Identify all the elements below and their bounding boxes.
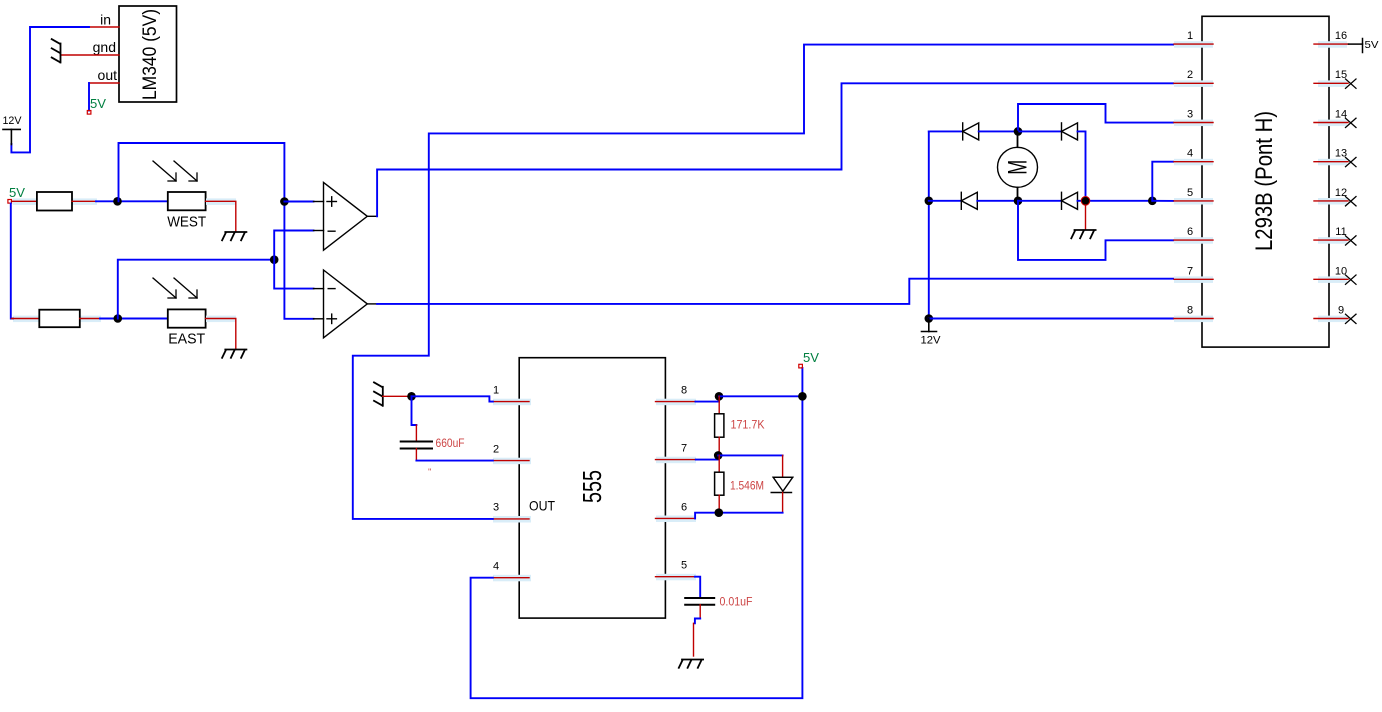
- wire motor bottom loop to L293B pin 6: [1018, 201, 1174, 260]
- supply 12V (left): [3, 129, 20, 144]
- wire motor top lead: [1017, 131, 1019, 147]
- svg-text:660uF: 660uF: [436, 438, 465, 450]
- 555 pin 7 stub: [656, 459, 696, 461]
- wire 555 pin 7 to junction: [696, 455, 718, 459]
- wire bottom node to D4: [1018, 200, 1062, 202]
- resistor R2 (EAST divider): [39, 310, 80, 328]
- L293B pin 14 stub (nc): [1314, 118, 1356, 127]
- wire pin7 junction to diode top: [718, 454, 782, 456]
- node pin8/R3 junction: [715, 392, 724, 401]
- svg-text:EAST: EAST: [168, 331, 205, 348]
- ground for bridge: [1071, 230, 1095, 238]
- svg-text:5V: 5V: [90, 97, 107, 111]
- wire 555 pin 6 to junction row: [695, 513, 783, 519]
- svg-text:5V: 5V: [803, 351, 820, 365]
- svg-text:12V: 12V: [921, 335, 942, 347]
- node 555 pin1/cap junction: [407, 392, 416, 401]
- wire ground node to pin5 node: [1086, 200, 1153, 202]
- node tap EAST signal: [270, 255, 279, 264]
- node junction EAST divider: [114, 314, 123, 323]
- svg-text:6: 6: [681, 502, 687, 514]
- wire rail to R2: [12, 318, 40, 320]
- pin highlight bands L293B left: [1174, 41, 1213, 322]
- wire D3 to bottom node: [977, 200, 1018, 202]
- wire WEST to ground: [206, 201, 236, 231]
- node pin6/R4 junction: [715, 508, 724, 517]
- ground at 555 pin 1: [374, 382, 383, 405]
- pin highlight band (EAST right): [206, 316, 236, 323]
- wire EAST to ground: [206, 319, 236, 349]
- wire R2 to junction: [80, 318, 100, 320]
- wire bridge left rail: [928, 131, 930, 318]
- wire diode D5 top lead: [782, 455, 784, 477]
- svg-text:WEST: WEST: [167, 214, 206, 231]
- wire diode D5 bottom lead: [782, 493, 784, 513]
- L293B pin 15 stub (nc): [1314, 79, 1356, 88]
- wire motor top loop to L293B pin 3: [1018, 104, 1174, 131]
- op-amp U1 (comparator top): [314, 182, 378, 250]
- svg-text:4: 4: [1187, 148, 1193, 160]
- node pin7/R3/R4 junction: [714, 451, 723, 460]
- pin highlight bands (left divider row EAST): [13, 316, 101, 323]
- pin highlight band (WEST right): [206, 198, 236, 205]
- wire junction to 555 pin 1: [412, 396, 493, 401]
- diode D2: [1062, 123, 1078, 140]
- L293B pin 7 stub: [1174, 278, 1213, 280]
- pin highlight bands L293B right: [1318, 41, 1347, 322]
- 555 pin 1 stub: [493, 401, 529, 403]
- diode D5: [771, 477, 793, 492]
- wire R1 to junction: [72, 200, 96, 202]
- svg-text:16: 16: [1335, 30, 1347, 42]
- svg-text:L293B (Pont H): L293B (Pont H): [1251, 111, 1278, 251]
- capacitor C1 660uF: [401, 442, 432, 449]
- timer U4 555: [519, 358, 665, 618]
- wire C1 bottom to 555 pin 2: [415, 449, 417, 461]
- svg-text:9: 9: [1338, 305, 1344, 317]
- diode D3: [961, 192, 977, 209]
- svg-text:2: 2: [493, 444, 499, 456]
- svg-text:11: 11: [1335, 226, 1346, 238]
- L293B pin 13 stub (nc): [1314, 157, 1356, 166]
- wire 5V loop to 555 pin 4: [471, 368, 803, 698]
- wire tap to U1 plus input: [284, 201, 313, 203]
- svg-text:OUT: OUT: [529, 498, 555, 514]
- wire bottom-left to D3: [929, 200, 962, 202]
- L293B pin 4 stub: [1174, 161, 1213, 163]
- svg-text:12V: 12V: [3, 115, 23, 127]
- ground for C2: [679, 660, 703, 668]
- node 5V (regulator output): [87, 111, 91, 115]
- L293B pin 3 stub: [1174, 122, 1213, 124]
- svg-text:171.7K: 171.7K: [731, 420, 765, 432]
- svg-text:'': '': [428, 467, 432, 477]
- L293B pin 11 stub (nc): [1314, 236, 1356, 245]
- svg-text:3: 3: [1187, 109, 1193, 121]
- svg-text:7: 7: [1187, 266, 1193, 278]
- svg-text:M: M: [1003, 160, 1033, 175]
- node tap to U1 plus input: [280, 197, 289, 206]
- svg-text:1: 1: [493, 385, 499, 397]
- wire R4 top lead: [718, 455, 720, 472]
- wire junction to L293B pin 5: [1152, 200, 1174, 202]
- wire top-left corner to diode D1: [929, 130, 963, 132]
- svg-text:8: 8: [1187, 305, 1193, 317]
- L293B pin 2 stub: [1174, 82, 1213, 84]
- ground for U3 gnd: [52, 39, 61, 62]
- regulator U3 LM340 (5V): [119, 6, 177, 102]
- wire WEST junction up and over to comparators: [119, 143, 314, 319]
- L293B pin 16 stub: [1314, 43, 1349, 45]
- wire R4 bottom lead: [718, 495, 720, 513]
- wire EAST signal to U1 minus and U2 minus: [274, 231, 313, 289]
- wire motor bottom lead: [1017, 188, 1019, 201]
- svg-text:5V: 5V: [9, 186, 26, 200]
- svg-text:14: 14: [1335, 109, 1347, 121]
- pin highlight bands 555 left: [493, 399, 531, 582]
- 555 pin 5 stub: [656, 576, 695, 578]
- wire EAST junction up and over to comparators: [118, 260, 274, 319]
- wire U3 pin gnd (red stub): [61, 54, 120, 56]
- svg-text:3: 3: [493, 502, 499, 514]
- resistor R4 1.546M: [715, 472, 724, 495]
- svg-text:out: out: [98, 67, 118, 83]
- node 12V junction: [925, 314, 934, 323]
- svg-text:2: 2: [1187, 69, 1193, 81]
- node bridge bottom-left: [925, 197, 934, 206]
- wire top node to D2: [1018, 130, 1062, 132]
- svg-text:0.01uF: 0.01uF: [720, 597, 753, 609]
- svg-text:gnd: gnd: [93, 39, 116, 55]
- driver U5 L293B (Pont H): [1202, 16, 1329, 347]
- capacitor C2 0.01uF: [685, 598, 714, 605]
- wire bridge ground lead: [1085, 205, 1087, 229]
- svg-text:15: 15: [1335, 69, 1347, 81]
- svg-text:12: 12: [1335, 187, 1347, 199]
- svg-text:10: 10: [1335, 266, 1347, 278]
- wire U1 output to L293B pin 2: [377, 83, 1174, 216]
- L293B pin 1 stub: [1174, 43, 1213, 45]
- svg-text:1: 1: [1187, 30, 1193, 42]
- wire pin8 junction to 5V rail: [719, 395, 802, 397]
- ground for WEST: [222, 232, 246, 240]
- wire 555 pin 5 to capacitor C2: [695, 577, 700, 598]
- wire 12V feed to U3 in: [11, 27, 89, 152]
- svg-text:6: 6: [1187, 226, 1193, 238]
- svg-text:8: 8: [681, 385, 687, 397]
- 555 pin 6 stub: [656, 517, 696, 519]
- svg-text:LM340 (5V): LM340 (5V): [140, 9, 161, 100]
- node 5V rail junction: [798, 392, 807, 401]
- svg-text:in: in: [100, 12, 111, 28]
- wire U3 out to 5V node: [88, 83, 90, 111]
- photoresistor LDR WEST: [153, 161, 206, 210]
- pin highlight bands 555 right: [656, 399, 696, 581]
- wire junction blue segment (WEST row): [96, 200, 168, 202]
- wire 555 pin 8 to rail: [696, 396, 720, 401]
- svg-text:5: 5: [681, 560, 687, 572]
- wire junction up to L293B pin 4: [1152, 162, 1174, 201]
- wire down to ground: [693, 623, 695, 656]
- node 5V (right rail top): [799, 364, 803, 368]
- wire junction blue segment (EAST row): [100, 318, 168, 320]
- wire U3 pin in (red stub): [89, 26, 119, 28]
- L293B pin 5 stub: [1174, 200, 1213, 202]
- resistor R1 (WEST divider): [37, 192, 72, 211]
- wire 12V junction to L293B pin 8: [929, 318, 1174, 320]
- svg-text:1.546M: 1.546M: [730, 481, 764, 493]
- supply 5V at pin 16: [1349, 39, 1363, 53]
- svg-text:5: 5: [1187, 187, 1193, 199]
- L293B pin 6 stub: [1174, 239, 1213, 241]
- wire 5V to R1: [12, 200, 37, 202]
- wire R3 bottom lead: [718, 437, 720, 455]
- diode D1: [963, 123, 979, 140]
- wire ground to pin1 junction: [383, 395, 412, 397]
- wire U3 pin out (red stub): [89, 82, 119, 84]
- motor M1: [998, 147, 1038, 187]
- node pin5 junction: [1148, 197, 1157, 206]
- wire R3 top lead: [718, 396, 720, 414]
- pin highlight bands (left divider row WEST): [13, 198, 97, 205]
- L293B pin 8 stub: [1174, 318, 1213, 320]
- op-amp U2 (comparator bottom): [314, 270, 378, 338]
- svg-text:5V: 5V: [1365, 39, 1379, 51]
- 555 pin 4 stub: [493, 577, 529, 579]
- wire D2 to right rail down: [1078, 131, 1086, 200]
- 555 pin 3 stub: [493, 518, 529, 520]
- svg-text:13: 13: [1335, 148, 1347, 160]
- L293B pin 12 stub (nc): [1314, 197, 1356, 206]
- svg-text:7: 7: [681, 443, 687, 455]
- wire C2 bottom lead: [699, 605, 701, 619]
- svg-text:4: 4: [493, 561, 499, 573]
- node motor top: [1014, 127, 1023, 136]
- wire left rail down to EAST row: [11, 204, 13, 319]
- L293B pin 9 stub (nc): [1314, 314, 1356, 323]
- node motor bottom: [1014, 197, 1023, 206]
- supply 12V (bridge): [922, 319, 937, 332]
- wire junction down to capacitor C1: [412, 396, 417, 425]
- wire D4 to ground node: [1078, 200, 1086, 202]
- ground for EAST: [222, 350, 246, 358]
- wire U2 output to L293B pin 7: [377, 279, 1174, 304]
- node 5V (left rail): [8, 200, 12, 204]
- resistor R3 171.7K: [715, 414, 724, 437]
- 555 pin 2 stub: [493, 460, 529, 462]
- 555 pin 8 stub: [656, 401, 696, 403]
- svg-text:555: 555: [577, 470, 607, 503]
- L293B pin 10 stub (nc): [1314, 275, 1356, 284]
- diode D4: [1062, 192, 1078, 209]
- wire D1 to top node: [979, 130, 1018, 132]
- wire 555 pin 3 OUT up to L293B pin 1: [353, 45, 1174, 519]
- photoresistor LDR EAST: [153, 278, 206, 328]
- wire jog to ground: [695, 619, 700, 624]
- node junction WEST divider: [113, 197, 122, 206]
- node bridge right (grounded, red ring): [1081, 197, 1090, 206]
